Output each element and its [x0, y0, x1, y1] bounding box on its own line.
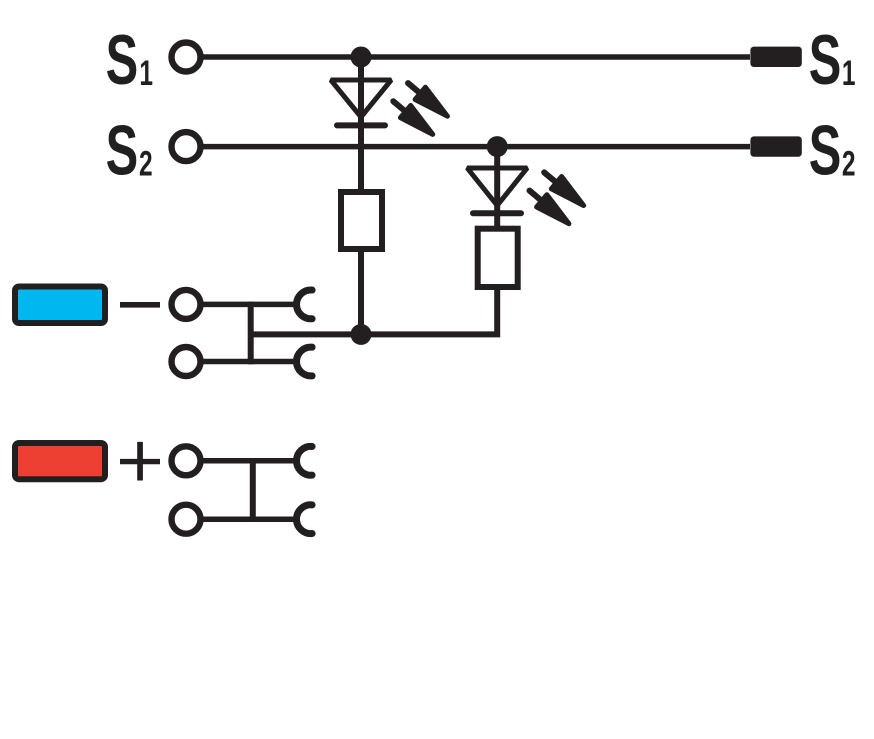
wire R2 down and left to bottom bus	[251, 287, 498, 334]
LED D1 light arrow upper	[403, 77, 453, 122]
clamp contact minus upper	[297, 290, 313, 319]
svg-text:1: 1	[842, 54, 856, 94]
svg-text:2: 2	[842, 144, 856, 184]
terminal circle minus lower	[172, 347, 201, 376]
node S2 left label	[106, 110, 153, 189]
LED D2 light arrow lower	[524, 184, 574, 229]
svg-text:2: 2	[139, 144, 153, 184]
wire plus upper	[203, 458, 297, 464]
blue marker block (minus supply)	[15, 287, 105, 324]
junction dot on S2 wire	[487, 136, 508, 157]
junction dot bottom bus	[351, 324, 372, 345]
wire LED2 branch vertical	[494, 147, 500, 229]
svg-text:1: 1	[139, 54, 153, 94]
LED D2	[467, 168, 527, 213]
wire S2 horizontal	[202, 144, 750, 150]
wire LED1 branch vertical	[358, 57, 364, 192]
svg-text:S: S	[809, 110, 842, 189]
terminal circle S1 left	[172, 43, 201, 72]
clamp contact plus lower	[297, 505, 313, 534]
LED D2 light arrow upper	[539, 166, 589, 211]
minus sign	[120, 302, 160, 308]
wire plus lower	[203, 516, 297, 522]
node S2 right label	[809, 110, 856, 189]
svg-text:S: S	[809, 20, 842, 99]
resistor R2	[478, 229, 518, 287]
LED D1 light arrow lower	[388, 95, 438, 140]
wire plus fork vertical	[250, 458, 256, 522]
terminal pad S2 right	[750, 136, 801, 156]
terminal circle plus upper	[172, 446, 201, 475]
wire minus fork vertical	[248, 302, 254, 365]
svg-text:S: S	[106, 110, 139, 189]
terminal circle plus lower	[172, 505, 201, 534]
terminal pad S1 right	[750, 47, 801, 67]
junction dot on S1 wire	[351, 47, 372, 68]
red marker block (plus supply)	[15, 443, 105, 479]
LED D1	[331, 80, 391, 125]
wire S1 horizontal	[202, 54, 750, 60]
terminal circle S2 left	[172, 132, 201, 161]
clamp contact minus lower	[297, 347, 313, 376]
terminal circle minus upper	[172, 290, 201, 319]
clamp contact plus upper	[297, 446, 313, 475]
node S1 left label	[106, 20, 153, 99]
plus sign	[120, 442, 160, 481]
svg-text:S: S	[106, 20, 139, 99]
wire minus upper	[203, 302, 297, 308]
resistor R1	[341, 192, 382, 249]
wire R1 to bottom junction	[358, 249, 364, 334]
node S1 right label	[809, 20, 856, 99]
wire minus lower	[203, 359, 297, 365]
